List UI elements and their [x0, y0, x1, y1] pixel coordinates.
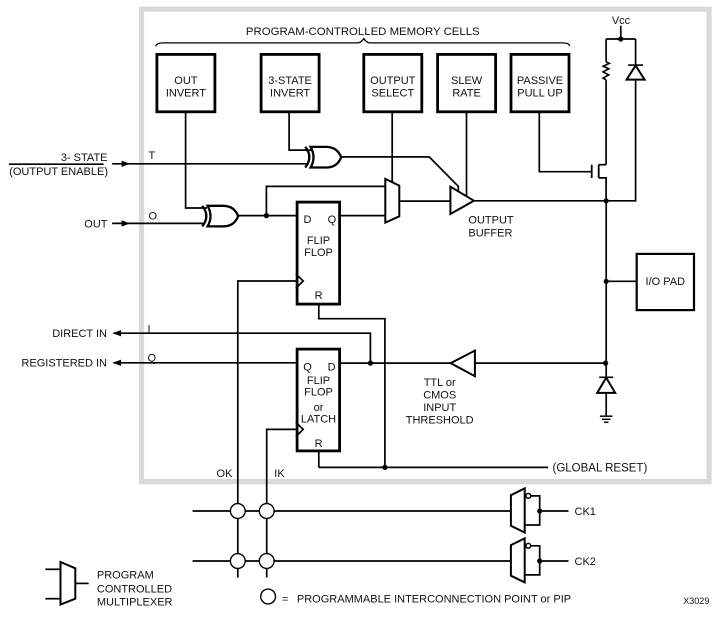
svg-text:OUTPUT: OUTPUT: [370, 75, 416, 87]
svg-text:REGISTERED IN: REGISTERED IN: [21, 358, 107, 370]
svg-text:FLOP: FLOP: [304, 387, 333, 399]
wire DIRECT IN line: [113, 333, 370, 363]
svg-text:(GLOBAL RESET): (GLOBAL RESET): [553, 462, 648, 474]
memory cell box SLEW RATE: [438, 54, 496, 111]
wire global reset horizontal: [319, 466, 548, 468]
svg-text:IK: IK: [274, 468, 285, 480]
flip-flop FF1: [296, 202, 340, 304]
PIP circle IK/CK2: [259, 554, 274, 569]
op-amp style output buffer triangle: [450, 187, 474, 214]
svg-text:3-STATE: 3-STATE: [268, 75, 312, 87]
svg-text:(OUTPUT ENABLE): (OUTPUT ENABLE): [9, 166, 108, 178]
wire REGISTERED IN line (FF2 Q): [113, 362, 297, 364]
memory cell box OUT INVERT: [157, 54, 215, 111]
arrow REGISTERED IN: [113, 360, 121, 366]
transistor Q1 (passive pull-up MOSFET): [592, 165, 606, 201]
wire XOR1 output to diagonal enable of output buffer: [341, 157, 458, 192]
svg-text:OUT: OUT: [84, 218, 108, 230]
svg-text:INVERT: INVERT: [270, 87, 310, 99]
OUT input line (O): [112, 222, 205, 224]
svg-text:INPUT: INPUT: [423, 402, 456, 414]
diode D2 (clamp to ground): [597, 377, 615, 393]
memory cell box PASSIVE PULL UP: [511, 54, 569, 111]
wire FF1 Q to mux bottom input: [341, 215, 386, 217]
resistor (pull-up): [603, 62, 609, 80]
wire pad vertical: [605, 201, 607, 377]
svg-text:PROGRAMMABLE INTERCONNECTION P: PROGRAMMABLE INTERCONNECTION POINT or PI…: [297, 593, 571, 605]
wire diode to ground: [605, 393, 607, 416]
diode D1 (to Vcc): [627, 65, 645, 80]
wire CK1 line: [193, 510, 511, 512]
legend program controlled multiplexer symbol: [45, 562, 88, 605]
svg-text:=: =: [282, 593, 288, 605]
wire OUTPUT SELECT to mux select: [391, 112, 393, 183]
svg-text:DIRECT IN: DIRECT IN: [52, 328, 107, 340]
svg-text:FLIP: FLIP: [307, 235, 330, 247]
svg-text:LATCH: LATCH: [301, 413, 336, 425]
svg-text:Q: Q: [148, 353, 157, 365]
wire Vcc rail horizontal: [606, 38, 636, 40]
svg-text:PASSIVE: PASSIVE: [517, 75, 563, 87]
wire PASSIVE PULL UP to transistor gate: [539, 112, 591, 172]
mux CK1 (clock invert select): [511, 488, 569, 532]
flip-flop FF2 (flip flop or latch): [296, 349, 340, 451]
svg-text:or: or: [314, 402, 324, 414]
PIP circle OK/CK1: [230, 504, 245, 519]
svg-text:SELECT: SELECT: [371, 87, 414, 99]
svg-text:I: I: [148, 324, 151, 336]
svg-text:MULTIPLEXER: MULTIPLEXER: [97, 597, 173, 609]
PIP circle IK/CK1: [259, 504, 274, 519]
svg-text:OUT: OUT: [174, 75, 198, 87]
wire junction up and over to mux top input: [266, 186, 385, 215]
svg-text:D: D: [304, 214, 312, 226]
svg-text:INVERT: INVERT: [166, 87, 206, 99]
svg-text:I/O PAD: I/O PAD: [646, 276, 686, 288]
wire input buffer to FF2 D: [341, 362, 451, 364]
node junction at XOR2 output: [264, 213, 269, 218]
wire CK2 line: [193, 560, 511, 562]
svg-text:R: R: [315, 290, 323, 302]
memory cell box 3-STATE INVERT: [261, 54, 319, 111]
svg-text:OUTPUT: OUTPUT: [468, 214, 514, 226]
xor gate XOR2 (out path): [202, 206, 238, 227]
node input branch junction: [603, 361, 608, 366]
node global reset junction: [382, 465, 387, 470]
node direct-in junction: [368, 361, 373, 366]
svg-text:FLOP: FLOP: [304, 247, 333, 259]
arrow DIRECT IN: [113, 330, 121, 336]
svg-text:D: D: [328, 361, 336, 373]
svg-text:CK1: CK1: [575, 506, 596, 518]
svg-text:O: O: [149, 210, 158, 222]
xor gate XOR1 (3-state path): [305, 147, 341, 168]
svg-text:FLIP: FLIP: [307, 375, 330, 387]
svg-text:PROGRAM: PROGRAM: [97, 570, 154, 582]
svg-text:PULL UP: PULL UP: [517, 87, 562, 99]
label TTL or CMOS INPUT THRESHOLD: [406, 377, 474, 427]
wire Vcc to diode cathode: [635, 39, 637, 65]
wire resistor to transistor drain: [605, 80, 607, 165]
wire FF1 R to global reset: [319, 304, 385, 467]
svg-text:R: R: [315, 438, 323, 450]
wire Vcc to resistor: [605, 39, 607, 62]
wire FF2 R down: [318, 450, 320, 467]
svg-text:T: T: [149, 150, 156, 162]
wire buffer output to pad node: [474, 200, 606, 202]
svg-text:OK: OK: [217, 468, 234, 480]
wire pad to input buffer: [475, 362, 606, 364]
wire to I/O PAD box: [606, 280, 636, 282]
wire SLEW RATE to output buffer: [466, 112, 468, 197]
label PROGRAM CONTROLLED MULTIPLEXER: [97, 570, 173, 609]
svg-text:CK2: CK2: [575, 556, 596, 568]
node I/O pad branch junction: [604, 279, 609, 284]
svg-text:PROGRAM-CONTROLLED MEMORY CELL: PROGRAM-CONTROLLED MEMORY CELLS: [246, 26, 480, 38]
mux (output select): [385, 179, 399, 223]
wire FF2 clock (IK): [267, 429, 297, 577]
ground: [600, 416, 613, 422]
node pad top junction: [604, 198, 609, 203]
brace over memory cell boxes: [156, 39, 570, 47]
arrow on 3-STATE line: [122, 161, 130, 167]
svg-text:TTL or: TTL or: [424, 377, 456, 389]
legend PIP circle: [261, 589, 276, 604]
svg-text:X3029: X3029: [683, 596, 709, 606]
wire XOR2 output to FF1 D: [238, 215, 296, 217]
memory cell box OUTPUT SELECT: [364, 54, 422, 111]
svg-text:THRESHOLD: THRESHOLD: [406, 415, 474, 427]
wire FF1 clock (OK): [238, 281, 297, 578]
svg-text:Q: Q: [303, 361, 312, 373]
svg-text:BUFFER: BUFFER: [468, 227, 512, 239]
svg-text:SLEW: SLEW: [451, 75, 483, 87]
svg-text:CMOS: CMOS: [423, 389, 456, 401]
wire Vcc down to junction: [620, 26, 622, 39]
3-STATE input line (T): [9, 163, 104, 165]
PIP circle OK/CK2: [230, 554, 245, 569]
node Vcc junction: [618, 36, 623, 41]
arrow on OUT line: [122, 220, 130, 226]
outer IOB frame (gray): [142, 9, 710, 481]
mux CK2 (clock invert select): [511, 538, 569, 582]
wire 3-STATE INVERT to XOR1 top input: [289, 112, 312, 150]
svg-text:Q: Q: [328, 214, 337, 226]
wire OUT INVERT to XOR2 top input: [186, 112, 207, 208]
wire diode anode down to pad node: [606, 80, 635, 201]
svg-text:RATE: RATE: [452, 87, 481, 99]
svg-text:Vcc: Vcc: [612, 15, 631, 27]
I/O PAD box: [637, 254, 694, 310]
input buffer (TTL/CMOS threshold): [451, 351, 475, 377]
svg-text:3- STATE: 3- STATE: [61, 152, 108, 164]
wire mux output to buffer input: [399, 200, 450, 202]
svg-text:CONTROLLED: CONTROLLED: [97, 584, 172, 596]
